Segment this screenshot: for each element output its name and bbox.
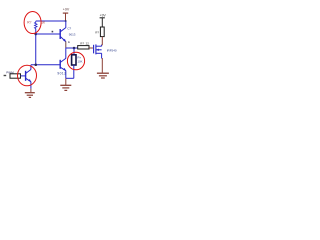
resistor R1 (zigzag, circled)	[35, 21, 38, 29]
node rail bottom junction	[34, 63, 37, 66]
wire Q1 base	[36, 33, 60, 35]
wire left vertical rail	[35, 29, 37, 65]
svg-text:9012: 9012	[57, 72, 66, 76]
svg-text:R?: R?	[95, 31, 99, 35]
wire to ground 2	[65, 78, 67, 85]
wire emitter to pulldown bottom	[66, 77, 74, 79]
svg-text:IRF540: IRF540	[107, 49, 117, 53]
wire to ground 3	[30, 89, 32, 92]
resistor R2 (gate series, box)	[78, 46, 89, 49]
annotation circle around Q3	[18, 65, 37, 86]
svg-text:+9V: +9V	[63, 8, 70, 12]
power port +9V (left)	[63, 8, 70, 21]
annotation circle around R3	[67, 52, 84, 70]
transistor Q3 (NPN input, circled)	[26, 65, 31, 89]
background	[0, 0, 121, 105]
svg-text:R?: R?	[80, 41, 84, 45]
svg-text:9013: 9013	[69, 33, 76, 37]
ground (bottom left)	[25, 93, 35, 98]
wire R4 to drain	[101, 37, 104, 45]
svg-text:E: E	[68, 40, 70, 44]
transistor Q4 MOSFET	[94, 44, 102, 58]
annotation circle around R1	[24, 12, 41, 34]
transistor Q1 (NPN top)	[60, 21, 66, 48]
wire output node horizontal	[66, 47, 78, 49]
svg-text:+9V: +9V	[100, 14, 107, 18]
svg-text:10K: 10K	[78, 59, 83, 63]
resistor R3 (pull-down, circled)	[72, 48, 76, 78]
transistor Q2 (PNP middle)	[60, 48, 66, 78]
svg-text:C?: C?	[67, 26, 71, 30]
port PWM	[4, 71, 21, 79]
power port +9V (right)	[100, 14, 107, 27]
ground (middle)	[60, 85, 71, 90]
ground (bottom right)	[97, 73, 109, 78]
wire Q2 base horizontal	[31, 64, 60, 66]
wire top horizontal net	[36, 20, 66, 22]
stray tick mark	[52, 31, 54, 33]
node top junction	[65, 20, 67, 22]
wire port to Q3 base	[21, 75, 26, 77]
node output junction	[73, 47, 76, 50]
wire source to ground 1	[101, 59, 103, 73]
wire gate segment	[89, 47, 93, 49]
svg-text:R?: R?	[27, 20, 31, 24]
svg-text:22: 22	[86, 41, 90, 45]
resistor R4 (top right, box)	[100, 27, 104, 37]
node base tap Q1	[34, 33, 37, 36]
